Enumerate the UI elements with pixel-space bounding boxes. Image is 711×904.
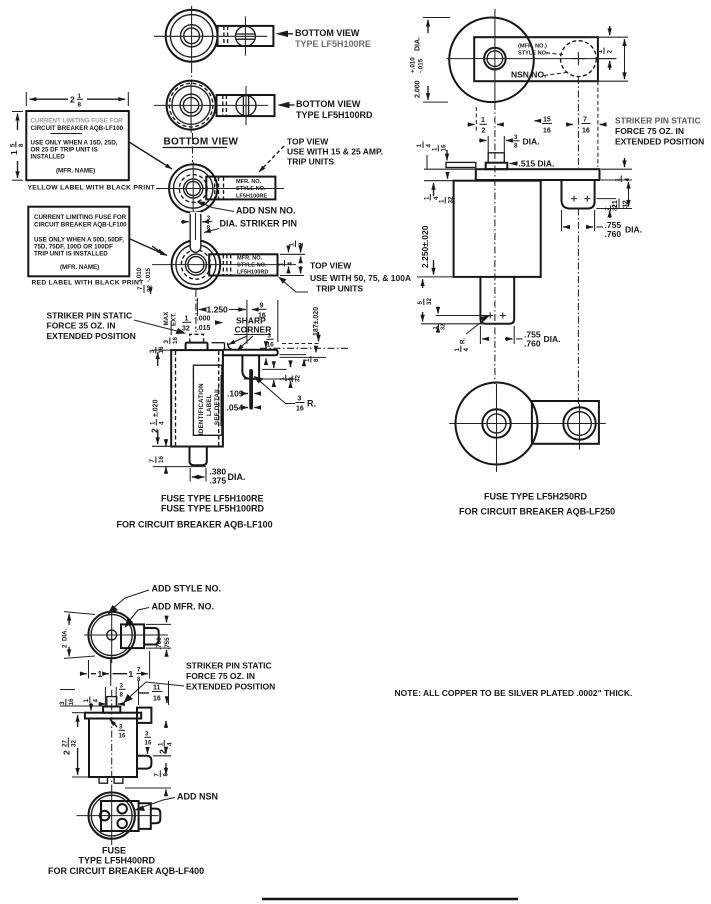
svg-text:.375: .375 [210,476,227,486]
svg-text:OR 25 DF TRIP UNIT IS: OR 25 DF TRIP UNIT IS [31,147,98,154]
svg-text:CURRENT LIMITING FUSE FOR: CURRENT LIMITING FUSE FOR [31,118,124,125]
inner circle [91,614,132,655]
svg-text:4: 4 [287,262,294,266]
svg-text:1: 1 [304,358,311,362]
centerline between views [191,66,193,84]
top right tab [137,708,151,723]
dashed bolt circle [169,83,213,127]
svg-text:7: 7 [583,117,587,124]
flange [85,713,141,719]
leader striker 35oz [134,320,179,332]
tick bottom [280,275,304,277]
top view drawing 15-25A LF5H100RE [156,162,284,213]
horizontal centerline [449,423,606,425]
dim 3/8 striker pin [181,215,212,232]
svg-text:DIA.: DIA. [523,137,540,147]
right tab [139,803,151,829]
dim 9/16 [237,300,278,344]
striker pin between views [190,212,201,252]
terminal tab rectangle [218,26,274,46]
svg-text:TYPE LF5H100RD: TYPE LF5H100RD [296,110,373,120]
inner ring [176,245,216,285]
svg-text:DIA.: DIA. [228,472,246,482]
tab inner dashed lines [223,26,225,46]
striker pin [488,153,504,163]
svg-text:1: 1 [454,348,461,352]
dim 1/4 rotated top left [416,142,433,149]
striker base [103,707,120,713]
svg-text:RED LABEL WITH BLACK PRINT: RED LABEL WITH BLACK PRINT [32,280,145,287]
centerlines [494,152,496,384]
outer circle [169,164,217,212]
svg-text:EXTENDED POSITION: EXTENDED POSITION [615,137,704,147]
svg-text:16: 16 [153,696,161,703]
dim 1/32 body left rotated [439,196,455,203]
outer circle [172,240,221,289]
dim 21/32 rotated [612,199,630,209]
svg-text:R.: R. [307,399,316,409]
svg-text:USE ONLY WHEN A 15D, 25D,: USE ONLY WHEN A 15D, 25D, [31,140,118,147]
svg-text:32: 32 [426,298,433,305]
dim 1/8 terminal rotated [279,375,295,382]
leader red box to top view [130,239,168,256]
fuse body outer circle [166,10,218,62]
vertical centerline fuse [191,6,193,66]
svg-text:1.250: 1.250 [207,305,229,315]
svg-text:STYLE NO.: STYLE NO. [518,51,548,57]
dim 7/32 tolerance rotated [136,267,154,293]
svg-text:11: 11 [153,685,161,692]
svg-text:-.015: -.015 [418,58,425,73]
dim 3/16 body leader [110,720,126,740]
svg-text:CURRENT LIMITING FUSE FOR: CURRENT LIMITING FUSE FOR [34,214,127,221]
svg-text:32: 32 [441,324,447,330]
svg-text:1: 1 [83,699,90,703]
svg-text:32: 32 [613,205,619,211]
bottom stud [480,277,514,324]
svg-text:FORCE 75 OZ. IN: FORCE 75 OZ. IN [615,126,684,136]
dim 1/4 body left rotated [424,194,441,201]
mounting flange [476,169,600,180]
dim 2 1/4 rotated [158,740,174,754]
stud circle [183,97,198,112]
leader add nsn [203,204,234,212]
plate dashed lines [214,177,216,199]
dim 2 27/32 rotated [62,738,78,756]
svg-text:YELLOW LABEL WITH BLACK PRINT: YELLOW LABEL WITH BLACK PRINT [28,185,156,192]
LF5H250RD side view [446,152,600,404]
svg-text:7: 7 [137,286,144,290]
svg-text:2: 2 [607,50,614,54]
svg-text:1: 1 [424,196,431,200]
svg-text:5: 5 [417,301,424,305]
vertical centerline screw [245,86,247,125]
mounting flange step [212,342,225,344]
svg-text:7: 7 [286,378,293,382]
dim 3/16 R radius [254,376,317,413]
svg-text:8: 8 [120,692,124,699]
lower right bump [137,756,151,769]
horizontal centerline [154,104,268,106]
svg-text:FUSE TYPE LF5H250RD: FUSE TYPE LF5H250RD [484,492,588,502]
dim .755 .760 bottom stud [480,326,560,349]
svg-text:16: 16 [543,128,551,135]
svg-text:STRIKER PIN STATIC: STRIKER PIN STATIC [186,661,272,671]
leaders sharp corner [229,336,248,345]
striker base [486,163,508,170]
terminal blade [249,369,253,410]
svg-text:±.020: ±.020 [153,399,160,417]
LF5H400RD bottom view [77,790,161,845]
LF5H250RD bottom view [449,383,606,472]
dim 3/16 bump [145,731,152,754]
horizontal centerline [154,35,267,37]
svg-text:DIA.: DIA. [544,334,561,344]
dim 1/4 flange right rotated [615,176,632,183]
LF5H400RD top view [84,607,168,663]
vertical centerline [195,290,197,332]
svg-text:NSN NO.: NSN NO. [511,70,546,80]
svg-text:16: 16 [582,128,590,135]
svg-text:DIA.: DIA. [625,225,642,235]
striker pin dashed extended [190,334,204,342]
LF5H250RD top view [447,9,617,103]
boss circles [482,409,510,437]
dim 3/16 top left rotated [59,698,75,705]
dimension 2 1/8 [26,92,128,109]
svg-text:FUSE: FUSE [102,846,126,856]
svg-text:4: 4 [426,144,433,148]
svg-text:8: 8 [514,143,518,150]
screw slot lines [236,33,256,35]
dim 11/16 [139,681,169,705]
svg-text:3: 3 [298,396,302,403]
svg-text:4: 4 [167,742,174,746]
bottom view drawing type LF5H100RD [154,81,373,133]
svg-text:MAX: MAX [163,311,170,326]
svg-text:7: 7 [154,773,161,777]
block rect [101,801,139,831]
svg-text:7: 7 [137,667,141,674]
svg-text:32: 32 [295,375,302,382]
dim 1/2 rotated [289,241,306,248]
svg-text:IDENTIFICATION: IDENTIFICATION [198,383,205,435]
svg-text:INSTALLED: INSTALLED [31,154,66,161]
svg-text:ADD NSN NO.: ADD NSN NO. [236,206,296,216]
svg-text:4: 4 [159,421,166,425]
horizontal centerline [447,58,617,60]
dim 1/4 rotated [278,260,295,267]
top view drawing 50-100A LF5H100RD [152,240,296,332]
svg-text:2: 2 [482,128,486,135]
svg-text:(MFR. NO.): (MFR. NO.) [518,44,547,50]
right terminal [562,181,595,209]
svg-text:STYLE NO.: STYLE NO. [237,262,267,268]
screw head circle [236,96,256,116]
yellow label box [26,111,129,180]
dim 3/8 DIA striker [479,134,540,152]
mounting flange plate [223,350,278,356]
svg-text:2: 2 [70,94,75,104]
svg-text:FUSE TYPE LF5H100RD: FUSE TYPE LF5H100RD [161,504,265,514]
dim MAX EXT rotated [163,311,178,326]
svg-text:-.015: -.015 [195,325,211,332]
fuse body inner ring [170,15,212,57]
dim 3/16 plate thickness [266,333,274,365]
dashed bolt circle [181,250,210,279]
svg-text:ADD MFR. NO.: ADD MFR. NO. [152,602,215,612]
screw head circle [235,26,255,46]
svg-text:EXTENDED POSITION: EXTENDED POSITION [47,331,136,341]
leader dia striker pin [204,229,219,233]
stud circle [186,181,200,195]
dim 1/2 below circle [468,117,503,135]
centerline [111,690,113,790]
svg-text:FOR CIRCUIT BREAKER AQB-LF400: FOR CIRCUIT BREAKER AQB-LF400 [48,866,204,876]
svg-text:FUSE TYPE LF5H100RE: FUSE TYPE LF5H100RE [161,494,264,504]
svg-text:16: 16 [172,337,179,344]
fuse body outer circle [167,81,216,130]
leader yellow box to top view [129,142,172,169]
center hole [107,630,117,640]
svg-text:16: 16 [119,733,126,740]
svg-text:FOR CIRCUIT BREAKER AQB-LF250: FOR CIRCUIT BREAKER AQB-LF250 [459,507,615,517]
centerline to top view [192,133,194,162]
left tab plate [446,162,476,167]
svg-text:1: 1 [432,147,439,151]
horizontal centerline [152,264,296,266]
svg-text:75D, 75DF, 100D OR 100DF: 75D, 75DF, 100D OR 100DF [34,244,113,251]
svg-text:3: 3 [207,215,211,222]
vertical centerline [494,9,496,103]
svg-text:TOP VIEW: TOP VIEW [310,261,352,271]
dim 3/16 left of cap rotated [163,337,179,344]
svg-text:3: 3 [59,701,66,705]
dim 1 and 1 7/8 [80,651,150,683]
svg-text:DIA.: DIA. [415,37,422,51]
svg-text:BOTTOM VIEW: BOTTOM VIEW [295,28,360,38]
vertical centerlines [496,384,498,472]
svg-text:.760: .760 [605,229,622,239]
svg-text:TRIP UNITS: TRIP UNITS [287,157,334,167]
svg-text:1: 1 [158,742,165,746]
svg-text:32: 32 [71,740,78,747]
svg-text:16: 16 [267,342,274,349]
svg-text:FOR CIRCUIT BREAKER AQB-LF100: FOR CIRCUIT BREAKER AQB-LF100 [117,520,273,530]
svg-text:1: 1 [185,316,189,323]
dim 7/16 stud rotated [149,456,165,463]
leader top view 50 label [283,281,308,292]
tab rect [121,624,144,648]
svg-text:BOTTOM VIEW: BOTTOM VIEW [296,99,361,109]
svg-text:MFR. NO.: MFR. NO. [237,255,263,261]
vertical centerline screw [244,17,246,56]
small tab [144,628,159,645]
inner ring [174,169,213,208]
svg-text:TRIP UNITS: TRIP UNITS [316,284,363,294]
tab rectangle [474,37,598,81]
svg-text:TYPE LF5H100RE: TYPE LF5H100RE [295,39,371,49]
svg-text:(MFR. NAME): (MFR. NAME) [60,264,99,271]
dim .760 .755 rotated [156,637,171,650]
svg-text:1: 1 [289,243,296,247]
boss circle [181,25,203,47]
big circle [456,383,538,465]
svg-text:FORCE 35 OZ. IN: FORCE 35 OZ. IN [47,321,116,331]
dim 5/32 rotated [417,298,433,305]
svg-text:TYPE LF5H400RD: TYPE LF5H400RD [79,856,156,866]
svg-text:16: 16 [158,456,165,463]
dim 7/8 rotated [154,771,170,778]
footer rule line [262,898,518,900]
svg-text:8: 8 [18,143,25,147]
svg-text:1: 1 [150,421,157,425]
outer circle [88,612,135,659]
svg-text:2: 2 [62,644,69,648]
svg-text:R.: R. [460,338,467,344]
svg-text:9: 9 [260,303,264,310]
svg-text:.515 DIA.: .515 DIA. [519,159,555,169]
svg-text:ADD STYLE NO.: ADD STYLE NO. [152,584,222,594]
dim 1/8 right of plate rotated [304,356,320,363]
dim .187 rotated [313,307,320,338]
body [89,719,137,778]
svg-text:USE WITH 15 & 25 AMP.: USE WITH 15 & 25 AMP. [287,147,383,157]
dim 2.250 rotated [420,225,430,268]
svg-text:DIA. STRIKER PIN: DIA. STRIKER PIN [220,219,298,229]
extension lines above striker [104,687,106,706]
dim .380 .375 DIA [190,467,245,486]
svg-text:1: 1 [481,117,485,124]
nsn dashed circle [561,41,597,77]
svg-text:8: 8 [78,102,82,109]
dim 1/2 right top rotated [590,26,628,81]
svg-text:4: 4 [463,348,470,352]
svg-text:-.015: -.015 [145,267,152,282]
dim 15/16 below circle [534,117,552,135]
svg-text:.760: .760 [524,339,541,349]
vertical centerline [111,607,113,663]
fuse outer circle [449,18,534,103]
dim 3/16 far left rotated [149,346,165,353]
svg-text:USE ONLY WHEN A 50D, 50DF,: USE ONLY WHEN A 50D, 50DF, [34,237,124,244]
stud circle [184,28,200,44]
svg-text:2.000: 2.000 [415,80,422,98]
dimension 1 5/8 [9,112,25,181]
dim 1/32 -000 -015 [182,316,224,333]
svg-text:8: 8 [313,358,320,362]
identification label rect [193,365,222,435]
terminal tab rectangle [217,95,275,116]
svg-text:8: 8 [207,224,211,231]
svg-text:TOP VIEW: TOP VIEW [287,137,329,147]
right dims of top view RD [278,241,306,276]
leader top view label [259,146,284,172]
tab rect [532,401,599,444]
svg-text:CIRCUIT BREAKER AQB-LF100: CIRCUIT BREAKER AQB-LF100 [34,222,127,229]
screw slot lines [242,96,244,115]
horizontal centerline [156,188,284,190]
leader arrow [277,102,290,109]
svg-text:3: 3 [514,134,518,141]
svg-text:STRIKER PIN STATIC: STRIKER PIN STATIC [615,116,701,126]
stud circle [188,257,204,273]
horizontal centerline [84,634,168,636]
bottom view drawing type LF5H100RE [154,6,371,66]
svg-text:32: 32 [448,196,455,203]
svg-text:2.250±.020: 2.250±.020 [420,225,430,268]
dashed bolt circle [179,175,207,203]
dim .515 DIA [509,161,518,166]
svg-text:3: 3 [120,683,124,690]
dim 7/16 below circle [566,117,606,135]
svg-text:1: 1 [416,144,423,148]
name plate rectangle [206,177,275,200]
outer circles [89,792,135,838]
dashed reference lines [282,343,320,345]
svg-text:4: 4 [433,196,440,200]
svg-text:1: 1 [278,262,285,266]
svg-text:32: 32 [182,326,190,333]
LF5H400RD side view [85,690,151,790]
bottom feet [99,777,107,783]
striker pin [107,697,117,707]
corner cross marks [571,196,590,202]
name plate rectangle [209,254,277,275]
svg-text:16: 16 [68,698,75,705]
dim .755 .760 right terminal [562,210,643,239]
boss circle [180,94,202,116]
svg-text:15: 15 [543,117,551,124]
svg-text:NOTE: ALL COPPER TO BE SILVER: NOTE: ALL COPPER TO BE SILVER PLATED .00… [395,688,633,698]
bottom stud [190,447,207,466]
svg-text:16: 16 [296,406,304,413]
tab inner dashed lines [222,95,224,116]
boss circle [184,179,203,198]
terminal block under flange [242,356,259,379]
svg-text:DIA.: DIA. [62,628,69,641]
svg-text:LABEL: LABEL [206,394,213,416]
body inner dashed lines [175,351,177,446]
dim 1/4 top rotated [83,697,100,704]
holes [100,811,110,821]
right small tab [151,809,161,824]
svg-text:1: 1 [597,50,604,54]
svg-text:1: 1 [129,669,134,679]
dim 2.000 dia rotated [410,18,451,103]
vertical centerline [192,162,194,213]
svg-text:16: 16 [145,740,152,747]
svg-text:2: 2 [298,242,305,246]
svg-text:3: 3 [145,731,149,738]
svg-text:(MFR. NAME): (MFR. NAME) [56,168,95,175]
side view LF5H100 fuse [171,334,278,465]
nsn center ticks [572,58,586,60]
dim 1.250 [197,298,246,316]
svg-text:LF5H100RD: LF5H100RD [237,270,268,276]
dim 1/32 rotated small [433,324,447,330]
boss circle [185,254,206,275]
right hole circles [563,407,595,439]
svg-text:TRIP UNIT IS INSTALLED: TRIP UNIT IS INSTALLED [34,251,108,258]
svg-text:1: 1 [439,199,446,203]
svg-text:CORNER: CORNER [235,325,272,335]
dim 1/4 R rotated [454,338,470,352]
centerlines [77,815,159,817]
svg-text:7: 7 [149,459,156,463]
identification label text rotated [198,375,221,435]
top cap [186,343,208,351]
